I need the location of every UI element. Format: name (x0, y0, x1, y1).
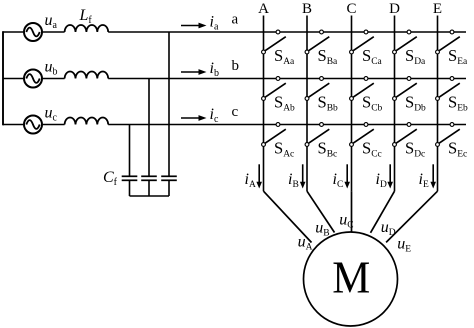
svg-text:ib: ib (210, 60, 219, 79)
svg-text:Lf: Lf (79, 7, 93, 26)
wire: column D lead to motor (371, 191, 395, 233)
switch S_Aa (262, 30, 286, 54)
arrow: output current i_A (256, 164, 262, 188)
wire: segment from neutral rail to source u_b (3, 78, 24, 80)
switch S_Cc (350, 123, 374, 147)
switch S_Ec (436, 123, 460, 147)
switch S_Bb (305, 77, 329, 101)
wire: drop from bus line a to capacitor C_f (168, 32, 170, 176)
svg-text:SCc: SCc (362, 139, 382, 160)
arrow: output current i_D (387, 164, 393, 188)
svg-text:SBc: SBc (318, 139, 338, 160)
svg-text:iD: iD (376, 171, 387, 190)
wire: column E lead to motor (386, 191, 437, 242)
svg-text:ic: ic (210, 106, 219, 125)
wire: bus line b (108, 78, 466, 80)
switch S_Db (393, 77, 417, 101)
svg-text:ia: ia (210, 14, 219, 33)
wire: drop from bus line c to capacitor C_f (129, 125, 131, 177)
svg-text:uA: uA (298, 234, 313, 253)
motor M (machine) (304, 232, 398, 326)
svg-text:uD: uD (381, 219, 396, 238)
switch S_Bc (305, 123, 329, 147)
arrow: output current i_C (344, 164, 350, 188)
AC voltage source u_c (24, 116, 42, 134)
wire: output column line E (437, 16, 439, 192)
arrow: output current i_E (430, 164, 436, 188)
svg-text:iC: iC (333, 171, 344, 190)
svg-text:SAa: SAa (274, 46, 295, 67)
arrow: input current i_c (181, 115, 207, 121)
inductor L_f (phase b) (65, 72, 109, 79)
capacitor C_f (phase b) (141, 176, 157, 180)
wire: capacitor C_f (phase b) to common rail (148, 180, 150, 196)
wire: segment from neutral rail to source u_c (3, 124, 24, 126)
svg-text:b: b (232, 58, 240, 74)
svg-text:ua: ua (45, 12, 58, 31)
svg-text:E: E (433, 1, 442, 17)
svg-text:SAb: SAb (274, 93, 295, 114)
wire: capacitor C_f (phase c) to common rail (129, 180, 131, 196)
wire: output column line B (306, 16, 308, 192)
capacitor C_f (phase c) (122, 176, 138, 180)
switch S_Ea (436, 30, 460, 54)
svg-text:uE: uE (397, 235, 411, 254)
svg-text:A: A (258, 1, 269, 17)
svg-text:SDc: SDc (405, 139, 425, 160)
inductor L_f (phase a) (65, 25, 109, 32)
switch S_Da (393, 30, 417, 54)
svg-text:iA: iA (245, 171, 256, 190)
wire: column B lead to motor (307, 191, 335, 232)
wire: bus line c (108, 124, 466, 126)
svg-text:Cf: Cf (103, 169, 118, 188)
switch S_Ac (262, 123, 286, 147)
wire: drop from bus line b to capacitor C_f (148, 79, 150, 177)
wire: bus line a (108, 31, 466, 33)
svg-text:a: a (232, 12, 239, 28)
AC voltage source u_b (24, 70, 42, 88)
inductor L_f (phase c) (65, 117, 109, 124)
svg-text:iB: iB (288, 171, 299, 190)
svg-text:SBb: SBb (318, 93, 339, 114)
svg-text:SEc: SEc (448, 139, 467, 160)
wire: output column line C (351, 16, 353, 192)
svg-text:SBa: SBa (318, 46, 339, 67)
wire: capacitor common bottom rail (130, 195, 170, 197)
svg-text:M: M (332, 252, 370, 303)
wire: column C lead to motor (351, 191, 353, 232)
switch S_Ca (350, 30, 374, 54)
switch S_Cb (350, 77, 374, 101)
arrow: input current i_a (181, 23, 207, 29)
wire: column A lead to motor (264, 191, 312, 242)
switch S_Eb (436, 77, 460, 101)
svg-text:iE: iE (419, 171, 429, 190)
switch S_Ab (262, 77, 286, 101)
svg-text:SAc: SAc (274, 139, 294, 160)
svg-text:uc: uc (45, 105, 58, 124)
switch S_Dc (393, 123, 417, 147)
svg-text:SEa: SEa (448, 46, 468, 67)
svg-text:SEb: SEb (448, 93, 468, 114)
svg-text:B: B (302, 1, 312, 17)
svg-text:D: D (389, 1, 400, 17)
svg-text:SCb: SCb (362, 93, 383, 114)
svg-text:ub: ub (45, 59, 58, 78)
wire: segment from neutral rail to source u_a (3, 31, 24, 33)
arrow: output current i_B (300, 164, 306, 188)
svg-text:SCa: SCa (362, 46, 383, 67)
capacitor C_f (phase a) (161, 176, 177, 180)
wire: source u_c to inductor (42, 124, 65, 126)
wire: output column line A (263, 16, 265, 192)
AC voltage source u_a (24, 23, 42, 41)
svg-text:SDa: SDa (405, 46, 426, 67)
wire: source u_a to inductor (42, 31, 65, 33)
arrow: input current i_b (181, 69, 207, 75)
svg-text:SDb: SDb (405, 93, 426, 114)
switch S_Ba (305, 30, 329, 54)
svg-text:C: C (346, 1, 356, 17)
svg-text:c: c (232, 104, 239, 120)
wire: capacitor C_f (phase a) to common rail (168, 180, 170, 196)
wire: left neutral rail joining the three sources (2, 31, 4, 125)
wire: source u_b to inductor (42, 78, 65, 80)
wire: output column line D (394, 16, 396, 192)
